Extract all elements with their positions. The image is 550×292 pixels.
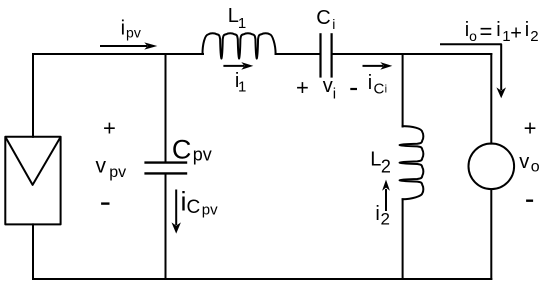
wire: C_pv branch from top rail down to capacitor [165,54,167,161]
label - (v_pv) [102,202,108,204]
wire: right vertical from top-right corner down to source circle [490,54,492,144]
svg-text:+: + [296,75,309,100]
capacitor C_pv: bottom plate [146,172,186,174]
label - (v_o) [527,199,532,201]
capacitor Ci: left plate [319,34,321,76]
current arrow i_Ci [364,62,393,70]
svg-text:+: + [103,115,116,140]
inductor L2 (vertical branch, 4 loops facing right) [400,126,424,199]
wire: top rail between L1 and capacitor Ci [276,53,320,55]
wire: top rail between Ci and top-right corner [333,53,492,55]
capacitor Ci: right plate [331,34,333,76]
current arrow i_2 pointing up [382,180,390,210]
current arrow i_pv on top rail [101,42,157,49]
solar panel PV source: rectangle [5,137,60,225]
wire: top rail from left corner to L1 [33,53,203,55]
current arrow i_1 below L1 [224,62,253,70]
svg-text:+: + [524,115,537,140]
wire: left vertical from top rail down to PV panel top [32,54,34,137]
capacitor C_pv: top plate [146,161,186,163]
wire: L2 branch from top rail node down to coil [402,54,404,127]
current arrow i_Cpv pointing down [172,191,181,234]
label - (v_i) [351,88,356,90]
current arrow i_o (elbow into v_o) [441,44,506,98]
inductor L1 (top branch, 4 loops) [203,33,276,58]
output source circle v_o [469,144,515,190]
wire: C_pv branch from capacitor down to bottom rail [165,175,167,279]
wire: bottom rail [33,278,491,280]
solar panel PV source: V symbol inside [6,138,60,185]
wire: right vertical from source circle to bottom rail [490,189,492,279]
wire: left vertical from PV panel bottom to bottom rail [32,224,34,279]
wire: L2 branch from coil down to bottom rail [402,199,404,279]
